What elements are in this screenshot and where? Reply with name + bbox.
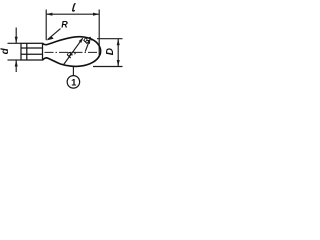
svg-text:d: d [0,47,11,54]
node arrowhead d top [15,37,18,44]
node arrowhead d bottom [15,60,18,67]
wire extension line bottom of d [8,59,22,61]
stem rectangle [21,43,43,60]
wire radius line R2 [85,40,89,51]
wire extension line left of l dimension [45,10,47,41]
wire extension line top of d [8,42,22,44]
wire dimension line d lower [15,60,17,72]
node arrowhead right of l [93,13,99,16]
node arrowhead D bottom [117,60,120,67]
wire thread end vertical [26,43,28,60]
node arrowhead R2 [87,38,91,44]
svg-text:R: R [61,20,68,30]
label R1 rotated [65,48,79,61]
node arrowhead left of l [46,13,52,16]
balloon circle 1 [67,76,80,89]
centerline dash-dot [45,51,100,53]
svg-text:1: 1 [71,78,77,89]
wire leader of R [48,29,61,40]
wire dimension line D [117,39,119,67]
wire leader of balloon 1 [72,67,74,76]
body outline of knob [43,37,101,67]
label l (script ell) [73,4,76,11]
node arrowhead R1 [79,37,84,43]
node arrowhead D top [117,39,120,46]
wire thread line upper [21,47,43,49]
wire extension line right of l dimension [98,10,100,56]
wire radius line R1 [63,39,82,65]
wire extension line top of D [97,38,123,40]
svg-text:D: D [105,48,116,55]
wire dimension line d upper [15,28,17,44]
node arrowhead of R leader [47,36,54,40]
wire dimension line l [46,13,99,15]
wire thread line lower [21,53,43,55]
wire extension line bottom of D [93,66,123,68]
label R2 rotated [81,33,95,46]
